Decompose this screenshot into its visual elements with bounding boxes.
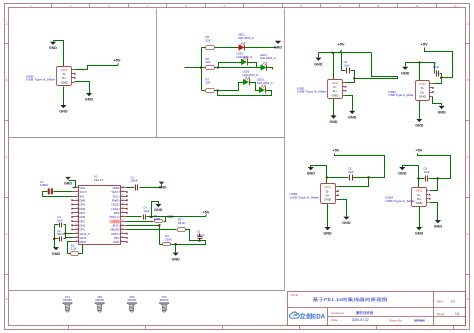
svg-text:100uF: 100uF <box>197 233 205 237</box>
pin 20 VDD5 (right) <box>121 221 127 223</box>
svg-text:REXT: REXT <box>80 240 88 244</box>
ground GND (C5) <box>161 185 163 188</box>
pin 5 DP4 (left) <box>73 204 79 206</box>
wire R5 input <box>202 47 206 49</box>
wire VDD5 pin1 to C5 <box>127 187 135 189</box>
ground GND (LED1) <box>275 41 281 44</box>
wire shell drop (USB2) <box>419 63 421 81</box>
svg-text:10uF: 10uF <box>57 218 63 222</box>
junction shell (USB3) <box>326 176 328 178</box>
wire LED4 out <box>267 68 273 70</box>
svg-text:D-: D- <box>421 86 424 90</box>
svg-text:10uF: 10uF <box>433 65 439 69</box>
pin 14 REXT (left) <box>73 241 79 243</box>
pin 16 DPU (right) <box>121 237 127 239</box>
wire to LED3 riser <box>218 83 244 91</box>
capacitor C1 10uF <box>55 224 59 226</box>
svg-text:10uF: 10uF <box>143 209 149 213</box>
svg-text:DP1: DP1 <box>80 228 86 232</box>
wire R4 out to C3 <box>171 241 206 245</box>
wire C1/C2 left to GND <box>54 225 56 248</box>
svg-text:19: 19 <box>121 224 123 226</box>
svg-text:DPU: DPU <box>114 236 120 240</box>
svg-text:7: 7 <box>77 211 78 213</box>
resistor R7 22K <box>206 89 215 93</box>
svg-text:VD18_O: VD18_O <box>80 232 90 236</box>
svg-text:USB5: USB5 <box>26 75 34 79</box>
junction vcc node (USB1) <box>353 77 355 79</box>
ground GND (USB4 bottom) <box>416 227 422 230</box>
wire R6 to junction <box>215 67 219 69</box>
junction shell (USB4) <box>417 177 419 179</box>
svg-text:GND: GND <box>64 181 72 185</box>
wire section divider horizontal <box>9 137 285 139</box>
pin 7 DP3 (left) <box>73 212 79 214</box>
svg-text:C7: C7 <box>433 61 437 65</box>
svg-text:26: 26 <box>121 195 123 197</box>
pin 27 TESTJ (right) <box>121 191 127 193</box>
svg-text:USB2: USB2 <box>388 90 396 94</box>
wire left mini rail (USB4) <box>403 166 419 179</box>
svg-text:USB1: USB1 <box>297 86 305 90</box>
pin 22 DRV (right) <box>121 212 127 214</box>
crystal X1 12MHz <box>48 188 50 194</box>
svg-text:C9: C9 <box>424 167 428 171</box>
svg-text:100uF: 100uF <box>130 179 138 183</box>
wire shell drop (USB1) <box>333 53 335 80</box>
svg-text:LED4: LED4 <box>260 53 267 57</box>
ground GND (USB5 bottom) <box>60 105 66 108</box>
wire USB3 GND pin <box>338 200 347 217</box>
svg-text:200K: 200K <box>154 217 161 221</box>
svg-text:GND: GND <box>437 111 446 115</box>
svg-text:USB-Type A_Male: USB-Type A_Male <box>388 93 414 97</box>
svg-text:3: 3 <box>77 195 78 197</box>
wire USB2 GND pin <box>433 97 442 106</box>
pin 6 DM3 (left) <box>73 208 79 210</box>
pin 10 DM1 (left) <box>73 225 79 227</box>
svg-text:+5V: +5V <box>337 41 344 46</box>
svg-text:VCC: VCC <box>324 185 331 189</box>
svg-text:D+: D+ <box>417 197 421 201</box>
capacitor C6 10uF <box>346 68 348 74</box>
wire LED3 to LED5 <box>250 83 260 91</box>
svg-text:1.2K: 1.2K <box>71 247 77 251</box>
svg-text:GND: GND <box>348 115 357 119</box>
wire shell drop (USB3) <box>326 178 328 184</box>
svg-text:D-: D- <box>333 85 336 89</box>
svg-text:USB3: USB3 <box>290 192 298 196</box>
svg-text:C4: C4 <box>143 205 147 209</box>
connector USB2 (USB Type A_Male) <box>416 81 434 101</box>
svg-text:GND: GND <box>85 98 94 102</box>
LED LED1 (LED-0603_R) <box>239 44 245 50</box>
svg-text:12MHz: 12MHz <box>40 183 49 187</box>
capacitor C4 10uF <box>143 215 145 220</box>
wire USB1 shell bottom <box>333 99 335 116</box>
svg-text:TESTJ: TESTJ <box>111 190 120 194</box>
ground GND (R4) <box>173 253 179 256</box>
junction R7 out <box>216 89 218 91</box>
wire R3 right to C3 node <box>186 230 200 241</box>
svg-text:TP1: TP1 <box>65 295 70 299</box>
wire LED2 out down <box>248 63 257 68</box>
svg-text:VCC: VCC <box>61 68 68 72</box>
wire BUSJ down to R4 <box>159 226 161 245</box>
svg-text:+5V: +5V <box>421 42 428 47</box>
wire crystal to XIN <box>43 192 73 197</box>
svg-text:Sheet:: Sheet: <box>437 312 446 316</box>
svg-text:D: D <box>6 233 8 236</box>
wire USB3 shell bottom <box>327 204 329 228</box>
ground GND (USB4 rail) <box>399 167 405 170</box>
svg-text:GND: GND <box>49 46 58 50</box>
pin 11 DP1 (left) <box>73 229 79 231</box>
wire XOUT to crystal <box>54 191 73 193</box>
svg-text:1/1: 1/1 <box>455 312 460 316</box>
power flag +5V (row8 end) <box>205 214 206 217</box>
svg-text:GND: GND <box>307 172 316 176</box>
svg-text:24: 24 <box>121 203 123 205</box>
svg-text:TITLE:: TITLE: <box>290 293 299 297</box>
svg-text:DMU: DMU <box>113 240 119 244</box>
LED LED3 (LED-0603_G) <box>243 79 249 85</box>
svg-text:立创EDA: 立创EDA <box>300 312 326 320</box>
svg-text:GND: GND <box>329 120 338 124</box>
wire C4 out <box>147 216 206 218</box>
svg-text:8: 8 <box>77 216 78 218</box>
svg-text:22: 22 <box>121 211 123 213</box>
svg-text:GND: GND <box>159 186 167 190</box>
wire section divider vertical right <box>284 9 286 291</box>
svg-text:6: 6 <box>77 207 78 209</box>
wire R5 to LED1 <box>215 47 239 49</box>
svg-text:GND: GND <box>434 225 443 229</box>
ground GND (USB3 rail) <box>308 167 314 170</box>
svg-text:GND: GND <box>332 93 340 97</box>
svg-text:VD33_O: VD33_O <box>109 215 119 219</box>
svg-text:+5V: +5V <box>113 58 120 63</box>
junction rail/shell (USB1) <box>332 52 334 54</box>
pin 4 DM4 (left) <box>73 200 79 202</box>
svg-text:M3X60: M3X60 <box>128 298 137 302</box>
svg-text:olwww: olwww <box>414 318 425 322</box>
resistor R3 66.4K <box>178 228 186 232</box>
svg-text:22K: 22K <box>206 38 211 42</box>
svg-text:C1: C1 <box>57 215 61 219</box>
svg-text:1.0: 1.0 <box>450 299 455 303</box>
svg-text:16: 16 <box>121 236 123 238</box>
svg-text:200K: 200K <box>165 238 172 242</box>
junction VD18 bus <box>64 233 66 235</box>
svg-text:22K: 22K <box>206 60 211 64</box>
ground GND (C1/C2) <box>53 247 59 250</box>
wire R1 right up <box>79 245 83 254</box>
wire USB3 VCC pin <box>338 178 369 187</box>
ground GND (USB3 pin) <box>343 217 349 220</box>
wire VD33_O row to C4 <box>127 216 142 218</box>
svg-text:VDD5: VDD5 <box>112 219 120 223</box>
wire GND loop above C4 <box>152 202 159 217</box>
logo LCEDA <box>290 312 326 320</box>
ground GND (VD33) <box>155 204 161 207</box>
wire rail left of cap (USB3) <box>327 177 349 179</box>
svg-text:15: 15 <box>121 241 123 243</box>
svg-text:100nF: 100nF <box>57 232 65 236</box>
svg-text:Date:: Date: <box>331 318 338 322</box>
resistor R2 200K <box>155 220 163 223</box>
wire USB5 GND pin <box>75 82 90 94</box>
wire R4 left lead <box>160 244 163 246</box>
ground GND (USB5 right) <box>86 93 92 96</box>
svg-text:VCC: VCC <box>416 189 423 193</box>
LED LED5 (LED-0603_G) <box>259 87 265 93</box>
wire USB2 shell bottom <box>419 101 421 119</box>
wire cap branch (USB2) <box>434 63 436 74</box>
svg-text:DP2: DP2 <box>80 219 86 223</box>
svg-text:C6: C6 <box>344 60 348 64</box>
wire LED section input net <box>185 67 202 69</box>
pin 8 DM2 (left) <box>73 216 79 218</box>
svg-text:DM3: DM3 <box>80 207 86 211</box>
svg-text:23: 23 <box>121 207 123 209</box>
svg-text:LED-0603_G: LED-0603_G <box>237 55 253 59</box>
wire USB4 VCC pin <box>430 179 438 191</box>
svg-text:13: 13 <box>75 236 77 238</box>
pin 25 PWRJ (right) <box>121 200 127 202</box>
wire section divider vertical left <box>156 9 158 138</box>
svg-text:+5V: +5V <box>202 209 209 214</box>
svg-text:5: 5 <box>77 203 78 205</box>
svg-text:GND: GND <box>401 71 410 75</box>
wire USB5 bottom shell <box>63 87 65 106</box>
wire left rail (USB2) <box>406 62 435 64</box>
svg-text:GND: GND <box>154 208 163 212</box>
svg-text:4: 4 <box>77 199 78 201</box>
svg-text:2: 2 <box>77 190 78 192</box>
svg-text:M3X60: M3X60 <box>160 298 169 302</box>
wire LED1 to GND <box>245 47 277 49</box>
svg-text:GND: GND <box>172 257 181 261</box>
svg-text:LED-0603_G: LED-0603_G <box>260 56 276 60</box>
svg-text:C: C <box>6 156 8 159</box>
svg-text:18: 18 <box>121 228 123 230</box>
svg-text:USB-Type A_Male: USB-Type A_Male <box>385 199 415 203</box>
svg-text:9: 9 <box>77 220 78 222</box>
pin 18 VBUSM (right) <box>121 229 127 231</box>
svg-text:D+: D+ <box>420 90 424 94</box>
svg-text:10uF: 10uF <box>424 170 430 174</box>
wire +5V feed (USB4) <box>418 154 451 179</box>
svg-text:XOUT: XOUT <box>80 190 88 194</box>
svg-text:D-: D- <box>63 72 66 76</box>
svg-text:10uF: 10uF <box>344 63 350 67</box>
svg-text:D-: D- <box>417 193 420 197</box>
power flag +5V (USB5) <box>118 63 119 66</box>
wire cap to vcc node (USB1) <box>351 71 355 79</box>
capacitor C5 100uF <box>135 185 137 191</box>
svg-text:USB Type A_Male: USB Type A_Male <box>26 78 56 82</box>
svg-text:C8: C8 <box>348 167 352 171</box>
pin 28 VDD5 (right) <box>121 187 127 189</box>
svg-text:M3X60: M3X60 <box>63 298 72 302</box>
wire +5V feed (USB3) <box>335 154 385 178</box>
wire rail right loop (USB1) <box>355 53 398 79</box>
wire VSS to GND (above IC) <box>69 181 76 188</box>
svg-text:17: 17 <box>121 232 123 234</box>
svg-text:22K: 22K <box>206 81 211 85</box>
junction R6 out <box>217 66 219 68</box>
svg-text:GND: GND <box>52 252 61 256</box>
junction vcc node (USB2) <box>440 77 442 79</box>
ground GND (USB1 bottom) <box>330 116 336 119</box>
svg-text:25: 25 <box>121 199 123 201</box>
wire USB5 VCC pin to +5V <box>75 66 118 70</box>
svg-text:GND: GND <box>342 221 351 225</box>
wire R4 node to GND <box>175 245 177 253</box>
wire VBUSM row11 to R3 <box>127 229 177 231</box>
svg-text:10: 10 <box>75 224 77 226</box>
svg-text:USB4: USB4 <box>385 196 393 200</box>
pin 12 VD18_O (left) <box>73 233 79 235</box>
wire jog up to LED2 <box>219 63 242 68</box>
capacitor C3 100uF <box>198 236 203 238</box>
pin 24 LED2J (right) <box>121 204 127 206</box>
resistor R4 200K <box>163 243 171 246</box>
svg-text:Company:: Company: <box>331 311 345 315</box>
svg-text:PWRJ: PWRJ <box>112 198 120 202</box>
wire +5V feed (USB2) <box>425 48 453 78</box>
svg-text:GND: GND <box>324 198 332 202</box>
svg-text:11: 11 <box>76 228 78 230</box>
pin 26 OVCJ (right) <box>121 196 127 198</box>
ground GND (USB2 pin) <box>439 106 445 109</box>
wire USB1 VCC pin <box>345 79 355 83</box>
wire input vertical bus <box>201 48 203 91</box>
capacitor C2 100nF <box>55 238 59 240</box>
svg-text:DRV: DRV <box>114 211 120 215</box>
wire C1/C2 right bus <box>65 225 67 239</box>
connector USB5 (USB Type A_Male) <box>57 67 76 86</box>
power flag +5V (USB1) <box>341 50 342 53</box>
junction vcc node (USB4) <box>436 177 438 179</box>
ground GND (VSS) <box>65 177 71 180</box>
wire C5 to GND <box>140 187 162 189</box>
svg-text:BUSJ: BUSJ <box>113 223 121 227</box>
svg-text:66.4K: 66.4K <box>178 221 185 225</box>
svg-text:21: 21 <box>121 216 123 218</box>
svg-text:GND: GND <box>415 124 424 128</box>
svg-text:VDD5: VDD5 <box>112 186 120 190</box>
junction R4 out <box>175 243 177 245</box>
svg-text:VD33: VD33 <box>80 236 87 240</box>
wire BUSJ row10 <box>127 225 160 227</box>
svg-text:D: D <box>467 233 469 236</box>
svg-text:GND: GND <box>419 95 427 99</box>
svg-text:+5V: +5V <box>415 148 422 153</box>
svg-text:Drawn By:: Drawn By: <box>389 318 403 322</box>
svg-text:LED5: LED5 <box>257 78 264 82</box>
svg-text:14: 14 <box>75 241 77 243</box>
svg-text:LED2J: LED2J <box>111 203 120 207</box>
svg-text:USB-Type A_Male: USB-Type A_Male <box>290 195 320 199</box>
svg-text:C2: C2 <box>57 229 61 233</box>
svg-text:GND: GND <box>415 232 424 236</box>
junction C3 bottom <box>199 239 201 241</box>
pin 1 VSS (left) <box>73 187 79 189</box>
wire USB5 top shell to GND <box>54 41 64 67</box>
wire rail gnd drop (USB2) <box>405 63 407 67</box>
svg-text:GND: GND <box>323 232 332 236</box>
junction C2 left <box>53 238 55 240</box>
wire cap branch (USB1) <box>342 53 346 71</box>
svg-text:2020-07-22: 2020-07-22 <box>352 318 369 322</box>
wire row2 to LED4 <box>219 67 261 69</box>
svg-text:LED1: LED1 <box>238 33 245 37</box>
svg-text:D+: D+ <box>333 89 337 93</box>
svg-text:X1: X1 <box>40 180 44 184</box>
svg-text:GND: GND <box>416 201 424 205</box>
pin 13 VD33 (left) <box>73 237 79 239</box>
wire R7 to junction <box>215 90 218 92</box>
svg-text:VCC: VCC <box>332 81 339 85</box>
wire VDD5 row9 to R2 <box>127 221 154 223</box>
svg-text:OVCJ: OVCJ <box>112 194 120 198</box>
ground GND (USB2 bottom) <box>416 119 422 122</box>
svg-text:DM2: DM2 <box>80 215 86 219</box>
svg-text:C5: C5 <box>130 175 134 179</box>
svg-text:+5V: +5V <box>166 214 173 219</box>
svg-text:LED1J: LED1J <box>111 207 120 211</box>
junction vcc node (USB3) <box>367 176 369 178</box>
svg-text:12: 12 <box>75 232 77 234</box>
wire USB2 VCC pin <box>433 78 442 84</box>
svg-text:GND: GND <box>314 62 323 66</box>
ground GND (USB3 bottom) <box>325 227 331 230</box>
svg-text:LED3: LED3 <box>243 70 250 74</box>
svg-text:VSS: VSS <box>80 186 86 190</box>
wire to VD18_O <box>66 233 73 235</box>
junction BUSJ <box>158 224 160 226</box>
ground GND (USB4 pin) <box>435 220 441 223</box>
svg-text:27: 27 <box>121 190 123 192</box>
wire rail gnd drop (USB1) <box>318 53 320 58</box>
svg-text:REV:: REV: <box>437 299 444 303</box>
IC U1 FE1.1S body <box>79 186 121 245</box>
capacitor C8 10uF (inline) <box>349 175 351 181</box>
pin 9 DP2 (left) <box>73 221 79 223</box>
resistor R5 22K <box>206 46 215 50</box>
svg-text:DP4: DP4 <box>80 203 86 207</box>
wire R7 input <box>202 90 206 92</box>
wire LED5 return loop <box>218 91 272 96</box>
pin 17 XRSTJ (right) <box>121 233 127 235</box>
svg-text:TP2: TP2 <box>97 295 102 299</box>
svg-text:LED-0603_G: LED-0603_G <box>243 73 259 77</box>
connector USB3 (USB Type A_Male) <box>321 184 339 204</box>
title block <box>288 292 466 326</box>
svg-text:20: 20 <box>121 220 123 222</box>
capacitor C9 10uF (inline) <box>425 176 427 182</box>
wire USB4 shell bottom <box>419 207 421 228</box>
svg-text:DP3: DP3 <box>80 211 86 215</box>
svg-text:FE1.1S: FE1.1S <box>94 178 103 182</box>
svg-text:28: 28 <box>121 186 123 188</box>
svg-text:XIN: XIN <box>80 194 85 198</box>
svg-text:GND: GND <box>398 172 407 176</box>
wire +5V rail (USB1) <box>319 52 372 54</box>
connector USB4 (USB Type A_Male) <box>412 188 431 207</box>
